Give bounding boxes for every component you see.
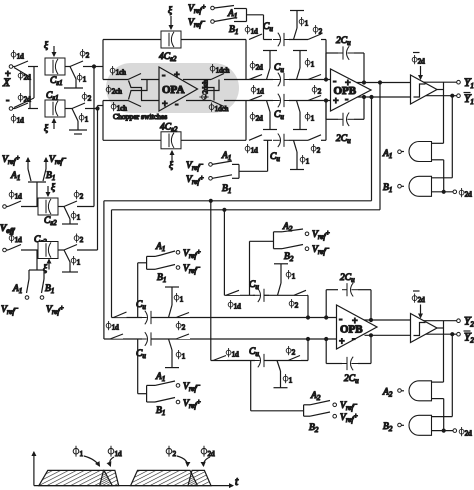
label phi2dch: [199, 79, 209, 99]
svg-text:4Cs2: 4Cs2: [159, 52, 177, 63]
svg-text:ξ: ξ: [44, 123, 49, 134]
wire OPB out minus: [358, 96, 411, 98]
switch phi2d common row3: [263, 101, 277, 130]
capacitor 2Cu s2 bottom: [342, 357, 359, 385]
wire chopper out upper: [183, 79, 211, 81]
op-amp OPB first stage: [331, 69, 372, 111]
svg-text:2d: 2d: [418, 296, 426, 304]
svg-text:1d: 1d: [257, 88, 265, 96]
wire Cs1 top right: [65, 66, 70, 68]
capacitor Cu row2: [265, 63, 289, 86]
label phi2d: [18, 71, 31, 82]
svg-text:Cs2: Cs2: [44, 216, 57, 227]
switch phi1 common row3: [293, 101, 307, 130]
switch phi2ch cross a: [129, 80, 148, 100]
svg-text:Y1: Y1: [464, 77, 474, 90]
svg-text:B2: B2: [284, 252, 294, 263]
wire row2 right: [289, 79, 331, 81]
svg-text:OPA: OPA: [162, 84, 184, 96]
svg-text:-: -: [333, 76, 336, 87]
svg-text:Vref+: Vref+: [186, 174, 204, 186]
svg-text:B1: B1: [157, 273, 166, 284]
op-amp OPB second stage: [337, 305, 378, 349]
svg-text:2d: 2d: [256, 64, 263, 72]
svg-text:-: -: [345, 94, 348, 105]
svg-text:1d: 1d: [251, 147, 258, 155]
svg-text:+: +: [352, 316, 358, 327]
svg-text:ξ: ξ: [44, 40, 49, 51]
comparator latch 1: [411, 75, 438, 104]
switch phi1d top input: [15, 61, 38, 67]
wire row1: [264, 39, 273, 41]
clock phi1d pulse: [100, 470, 119, 485]
svg-text:-: -: [339, 314, 342, 325]
wire OPB2 feedback bottom left: [325, 338, 342, 364]
switch phi2dch cross b: [205, 81, 215, 101]
switch B1: [43, 169, 55, 182]
wire stage2 in minus row: [112, 317, 337, 319]
switch phi1d row3: [249, 96, 262, 101]
switch phi1ch upper: [128, 74, 159, 80]
svg-text:1: 1: [292, 273, 296, 281]
label phi2 timing: [166, 446, 187, 466]
svg-text:Cu: Cu: [136, 300, 146, 311]
chopper shaded region: [106, 63, 239, 113]
svg-text:Vref+: Vref+: [46, 304, 64, 316]
output B1 terminal: [383, 183, 401, 194]
svg-text:2ch: 2ch: [112, 88, 123, 96]
svg-text:1d: 1d: [115, 450, 123, 458]
label phi1ch: [111, 102, 127, 113]
switch phi1d row1: [245, 25, 262, 40]
bus row4 to OPB: [325, 99, 328, 140]
wire Y2bar to gate B2: [432, 333, 454, 417]
clock phi2 pulse: [131, 470, 198, 485]
switch phi2 Cs2 top: [64, 201, 94, 207]
label phi1: [305, 58, 315, 69]
switch A2 lower mux: [304, 391, 330, 405]
wire OPB2 feedback top left: [325, 290, 338, 319]
label phi2: [80, 49, 90, 60]
svg-text:Cu: Cu: [274, 63, 284, 74]
phi2d terminal 1: [453, 188, 472, 199]
label phi1d: [9, 190, 22, 201]
capacitor Cu s2 in plus: [136, 332, 156, 361]
switch A1: [10, 169, 31, 182]
svg-text:2: 2: [86, 52, 90, 60]
svg-text:2Cu: 2Cu: [336, 134, 351, 145]
wire Cs1 bottom right: [65, 108, 72, 110]
svg-text:2: 2: [80, 193, 84, 201]
svg-text:2d: 2d: [24, 96, 32, 104]
switch B1 stage2 upper mux: [147, 265, 175, 285]
capacitor 2Cu top: [336, 36, 354, 60]
mux bracket top Cs2: [28, 182, 46, 207]
wire row a: [224, 294, 308, 296]
svg-text:2: 2: [182, 324, 186, 332]
output Y2 terminal: [457, 316, 474, 329]
label phi2d timing: [201, 446, 215, 466]
wire OPB out plus: [357, 82, 411, 84]
wire OPB2 out plus: [364, 319, 411, 321]
switch B1 lower: [42, 279, 55, 295]
clock phi2d pulse: [188, 470, 211, 485]
svg-text:Chopper switches: Chopper switches: [113, 112, 167, 121]
svg-text:B1: B1: [222, 184, 231, 195]
label phi2: [82, 92, 92, 103]
bus wire left 1: [93, 65, 96, 207]
svg-text:ξ: ξ: [169, 160, 174, 171]
wire OPB2 feedback bottom right: [358, 334, 373, 364]
label phi1d timing: [108, 446, 122, 466]
svg-text:Y1: Y1: [464, 93, 474, 106]
svg-text:2d: 2d: [465, 430, 473, 438]
label phi1: [71, 211, 81, 222]
switch phi1 to common Cs2 top: [62, 207, 78, 225]
mux bracket top: [247, 9, 264, 40]
svg-text:Vref+: Vref+: [340, 412, 358, 424]
wire OPB feedback top left: [326, 53, 338, 80]
Vref minus arrow left: [46, 154, 66, 169]
label phi1: [174, 293, 184, 304]
svg-text:2: 2: [318, 88, 322, 96]
wire phi2d to gate A1: [432, 160, 444, 192]
svg-text:1ch: 1ch: [116, 69, 127, 77]
Vref minus terminal lower: [1, 296, 29, 316]
capacitor Cu row1: [263, 22, 289, 46]
wire row B stub: [98, 105, 104, 107]
svg-text:Cs1: Cs1: [46, 91, 59, 102]
svg-text:1: 1: [85, 116, 89, 124]
wire comparator tip: [437, 89, 444, 91]
svg-text:A1: A1: [10, 171, 20, 182]
switch A1 stage2 upper mux: [147, 242, 175, 256]
switch B2 upper mux: [274, 245, 304, 264]
svg-text:4Cs2: 4Cs2: [160, 123, 178, 134]
xi arrow into 4Cs2 top: [168, 5, 173, 29]
timing axis horizontal: [34, 476, 239, 488]
wire route out plus to stage2: [112, 210, 381, 318]
svg-text:Cu: Cu: [249, 280, 259, 291]
and gate A1: [401, 142, 431, 162]
xi arrow into 4Cs2 bottom: [169, 151, 174, 171]
label phi1: [286, 270, 296, 281]
svg-text:A2: A2: [310, 391, 321, 402]
input X minus terminal: [9, 107, 15, 111]
svg-text:B2: B2: [309, 423, 319, 434]
svg-text:1dch: 1dch: [216, 67, 230, 75]
OPA feedback left edge top: [102, 40, 104, 80]
wire OPB feedback top right: [354, 53, 366, 84]
mux bracket mid: [239, 140, 268, 178]
svg-text:1d: 1d: [17, 117, 25, 125]
label phi2d: [18, 93, 31, 104]
wire route out minus to stage2: [104, 201, 372, 339]
label phi1d: [11, 114, 24, 125]
svg-text:1: 1: [180, 296, 184, 304]
switch phi1d row b: [213, 348, 239, 361]
label phi1dch: [209, 103, 229, 114]
phi2d terminal 2: [453, 427, 472, 438]
mux bracket A2B2 upper: [250, 232, 274, 295]
wire row2: [246, 79, 265, 81]
switch phi1 to common top: [64, 67, 83, 89]
svg-text:+: +: [162, 99, 168, 110]
svg-text:ξ: ξ: [168, 5, 173, 16]
capacitor Cu s2 in minus: [136, 300, 156, 325]
xi arrow Cs2 bottom: [43, 260, 49, 275]
switch phi1 common row1: [290, 11, 304, 40]
and gate A2: [401, 381, 431, 401]
svg-text:t: t: [235, 476, 239, 488]
svg-text:1: 1: [311, 115, 315, 123]
svg-text:2d: 2d: [256, 115, 263, 123]
svg-text:A1: A1: [12, 284, 22, 295]
svg-text:2Cu: 2Cu: [336, 36, 351, 47]
switch phi1d Cs2 top: [8, 201, 45, 207]
switch phi1dch upper: [211, 74, 246, 80]
wire row b up: [307, 338, 310, 361]
svg-text:Vref+: Vref+: [183, 248, 201, 260]
svg-text:2d: 2d: [24, 74, 32, 82]
wire chopper in lower: [103, 100, 128, 102]
svg-text:A1: A1: [155, 242, 165, 253]
switch phi1 to ground bottom: [69, 109, 87, 135]
svg-text:1d: 1d: [15, 236, 22, 244]
Vref plus terminal B2 lower: [333, 412, 358, 424]
switch phi1d s2 in minus: [114, 312, 127, 318]
wire out minus down: [370, 96, 373, 201]
Vref plus arrow left: [2, 154, 28, 169]
OPA feedback top wire: [103, 39, 246, 41]
svg-text:A2: A2: [282, 222, 293, 233]
svg-text:+: +: [339, 337, 345, 348]
svg-text:1: 1: [80, 450, 84, 458]
svg-text:1d: 1d: [251, 28, 258, 36]
output Y1bar terminal: [457, 93, 474, 107]
and gate B1: [401, 176, 431, 196]
wire Cs2 bottom right: [58, 249, 64, 251]
svg-text:+: +: [333, 96, 339, 107]
Vref plus terminal s2 upper: [176, 248, 201, 260]
output A1 terminal: [382, 149, 401, 160]
svg-text:+: +: [5, 69, 11, 80]
switch phi2 row2: [308, 75, 322, 96]
svg-text:Cu: Cu: [263, 22, 273, 33]
svg-text:2: 2: [317, 147, 321, 155]
switch phi1 common row b: [274, 361, 288, 388]
svg-text:B1: B1: [156, 406, 165, 417]
svg-text:1dch: 1dch: [215, 105, 229, 113]
wire chopper in upper: [103, 79, 128, 81]
Vref minus terminal s2 lower: [176, 381, 200, 393]
wire chopper out lower: [186, 100, 211, 102]
label phi1: [79, 113, 89, 124]
comparator latch 2: [411, 314, 438, 343]
svg-text:+: +: [174, 70, 180, 81]
op-amp OPA: [159, 67, 198, 111]
wire row1 right: [289, 39, 308, 41]
OPA feedback right edge bottom: [245, 101, 247, 141]
switch A1 lower: [12, 279, 29, 295]
xi arrow bottom: [44, 119, 54, 134]
svg-text:B1: B1: [229, 25, 238, 36]
svg-text:Y2: Y2: [464, 332, 474, 345]
label phi1d: [11, 50, 24, 61]
capacitor Cu row3: [265, 94, 289, 121]
svg-text:1: 1: [77, 259, 81, 267]
timing axis vertical: [33, 452, 35, 486]
capacitor 4Cs2 top: [159, 31, 181, 63]
clock phi2dbar: [412, 53, 425, 80]
svg-text:A1: A1: [382, 149, 392, 160]
svg-text:Vref+: Vref+: [183, 398, 201, 410]
wire row a down: [307, 295, 310, 319]
input X plus terminal: [9, 65, 15, 69]
capacitor Cu row b: [249, 347, 269, 368]
wire Y2: [424, 320, 457, 322]
svg-text:2: 2: [80, 236, 84, 244]
wire comparator2 tip: [437, 327, 444, 329]
svg-text:2: 2: [292, 349, 296, 357]
wire phi2d input 2: [432, 429, 454, 432]
svg-text:ξ: ξ: [51, 182, 56, 193]
mux bracket s2 lower to A1B1: [138, 339, 147, 402]
label phi1d: [9, 234, 22, 245]
svg-text:1: 1: [306, 158, 310, 166]
OPA feedback left edge bottom: [102, 101, 104, 141]
svg-text:1: 1: [289, 377, 293, 385]
wire Y1bar to gate B1: [432, 94, 454, 178]
switch phi2 s2 in minus: [176, 312, 190, 318]
capacitor 2Cu s2 top: [340, 273, 358, 297]
svg-text:1: 1: [83, 76, 87, 84]
wire Y1bar: [426, 95, 457, 97]
svg-text:1d: 1d: [232, 351, 240, 359]
wire row4 right: [289, 139, 308, 141]
wire row3 right: [289, 100, 331, 102]
capacitor 4Cs2 bottom: [160, 123, 181, 149]
capacitor Cs2 top: [38, 198, 58, 215]
wire row4: [264, 139, 273, 141]
svg-text:Vref–: Vref–: [312, 244, 329, 256]
svg-text:1d: 1d: [17, 53, 25, 61]
wire out plus down: [379, 81, 382, 210]
svg-text:1: 1: [77, 214, 81, 222]
switch A1 top mux: [214, 6, 246, 21]
switch phi1d row a: [226, 290, 241, 311]
svg-text:-: -: [162, 70, 165, 81]
svg-text:1: 1: [182, 353, 186, 361]
and gate B2: [401, 415, 431, 435]
switch phi2 row b: [286, 346, 301, 361]
svg-text:Vref+: Vref+: [2, 154, 20, 166]
svg-text:Voff: Voff: [0, 224, 15, 235]
wire tap out minus to row b: [209, 199, 212, 360]
output A2 terminal: [382, 388, 401, 399]
switch phi1d bottom input: [15, 103, 38, 109]
switch phi2 row a: [289, 290, 307, 310]
switch phi2d cross bottom: [14, 67, 34, 108]
svg-text:Y2: Y2: [464, 316, 474, 329]
input Voff top terminal: [3, 205, 8, 209]
wire phi2d input 1: [432, 190, 454, 193]
switch phi1 common row2: [293, 51, 307, 80]
wire row b: [211, 360, 308, 362]
switch phi1 common s2 in plus: [165, 339, 179, 368]
label phi1: [283, 374, 293, 385]
Vref plus terminal s2 lower: [176, 398, 201, 410]
label phi1: [299, 17, 309, 28]
svg-text:Vref–: Vref–: [183, 263, 200, 275]
output Y1 terminal: [457, 77, 474, 90]
svg-text:A1: A1: [155, 372, 165, 383]
label phi2 shared: [176, 321, 186, 332]
input Voff bottom terminal: [3, 248, 8, 252]
switch phi1d row4: [245, 135, 262, 155]
switch phi2 row4: [308, 135, 326, 155]
svg-text:Vref–: Vref–: [340, 400, 357, 412]
OPA feedback right edge top: [245, 40, 247, 80]
switch A1 mid mux: [212, 151, 239, 164]
mux bracket s2 upper: [138, 256, 147, 317]
svg-text:2d: 2d: [418, 58, 426, 66]
svg-text:Vref–: Vref–: [188, 17, 205, 29]
bus row1 to OPB: [325, 40, 328, 82]
wire tap out plus to row a: [223, 208, 226, 295]
label phi2d: [250, 112, 263, 123]
Vref plus terminal lower: [40, 296, 64, 316]
switch phi1 common s2 in minus: [165, 287, 179, 318]
capacitor Cs1 bottom: [45, 100, 65, 117]
bus wire left 2: [96, 106, 99, 251]
label phi1: [305, 112, 315, 123]
label phi1: [77, 73, 87, 84]
svg-text:B1: B1: [383, 183, 392, 194]
capacitor Cu row a: [249, 280, 269, 303]
output B2 terminal: [383, 422, 401, 433]
capacitor Cu row4: [270, 134, 289, 164]
label phi2: [74, 234, 84, 245]
svg-text:Vref–: Vref–: [1, 304, 18, 316]
label phi1 timing: [73, 446, 99, 466]
switch B1 top mux: [214, 18, 246, 36]
switch phi1 to common Cs2 bottom: [62, 250, 78, 272]
wire phi2d to gate A2: [432, 399, 444, 431]
label phi1: [71, 256, 81, 267]
switch B1 s2 lower mux: [147, 398, 175, 418]
label phi1: [176, 350, 186, 361]
switch phi1 common row a: [274, 264, 288, 296]
label phi2d: [250, 61, 263, 72]
wire Y1 to gate A1: [432, 82, 444, 143]
xi arrow Cs2 top: [48, 182, 56, 196]
output Y2bar terminal: [457, 331, 474, 345]
label phi2ch: [106, 85, 122, 96]
wire Y2 to gate A2: [432, 321, 444, 382]
OPA feedback bottom wire: [103, 139, 246, 141]
wire Y1: [424, 81, 457, 83]
svg-text:-: -: [6, 95, 9, 106]
svg-text:B1: B1: [45, 284, 54, 295]
switch phi1 common row4: [290, 140, 304, 169]
svg-text:2: 2: [319, 28, 323, 36]
xi arrow top: [44, 40, 54, 56]
switch phi2 s2 in plus: [176, 334, 190, 339]
wire OPB feedback bottom right: [354, 96, 366, 120]
label phi1d shared: [106, 321, 119, 332]
switch phi2 bottom row: [72, 103, 98, 109]
